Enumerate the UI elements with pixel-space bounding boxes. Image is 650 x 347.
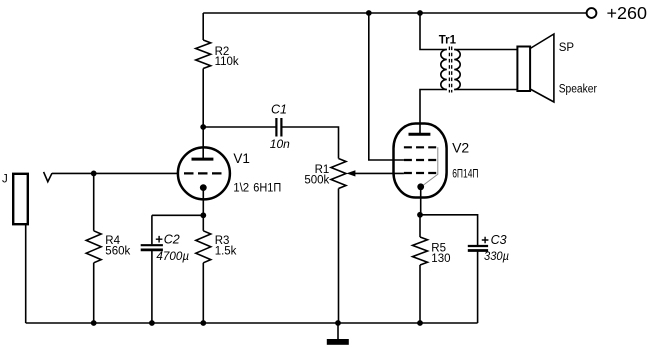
tube V2 internal g3-cathode tie [422,147,438,186]
svg-text:1.5k: 1.5k [215,245,237,257]
wire R2 bottom leg to node A [202,69,204,128]
wire cathode node to R3 [202,215,204,231]
wire V1 anode lead [202,127,204,159]
wire cathode node to C3 [420,215,478,246]
svg-text:SP: SP [559,42,575,54]
junction input / R4 [91,171,97,177]
wire V2 cathode lead [420,187,422,215]
svg-text:6Н1П: 6Н1П [253,183,281,195]
resistor R4 [86,231,101,263]
junction C2 / ground rail [149,320,155,326]
svg-text:500k: 500k [304,174,329,186]
svg-text:10n: 10n [270,137,290,151]
wire R5 top leg [419,215,421,237]
tube V2 cathode [417,183,424,190]
wire R4 top leg [93,173,95,230]
wire node A to C1 [203,126,276,128]
svg-text:Speaker: Speaker [559,84,597,96]
svg-text:+260: +260 [607,3,648,23]
node A (V1 anode) [200,124,206,130]
svg-text:V1: V1 [233,151,250,166]
svg-text:C3: C3 [491,233,507,247]
jack J [13,174,28,224]
tube V1 cathode [200,184,207,191]
ground symbol [327,339,349,345]
capacitor C2 plates [141,244,163,246]
speaker driver body [517,47,530,92]
svg-text:4700µ: 4700µ [156,249,189,263]
capacitor C3 plates [468,245,488,247]
tube V2 grid g1 (dashed) [404,172,436,174]
transformer Tr1 primary winding [441,50,447,90]
svg-text:110k: 110k [215,56,239,68]
wire Tr1 secondary bottom to speaker [454,89,517,91]
capacitor C1 plates [275,118,277,137]
junction top rail / screen feed [366,10,372,16]
svg-text:130: 130 [431,253,450,265]
svg-text:C2: C2 [164,233,180,247]
svg-text:J: J [2,173,8,185]
junction R4 / ground rail [91,320,97,326]
junction V1 cathode / C2 / R3 [200,212,206,218]
svg-text:560k: 560k [105,245,130,257]
junction top rail / Tr1 [417,10,423,16]
junction V2 cathode / R5 / C3 [417,212,423,218]
wire rail to Tr1 primary top [420,13,447,50]
wire C2 top connection [152,214,203,216]
wire C1 to R1 top [281,127,338,159]
svg-text:C1: C1 [271,102,287,116]
resistor R3 [196,231,211,263]
wire Tr1 secondary top to speaker [454,49,517,51]
wire R1 bottom to ground rail [338,189,340,324]
junction ground rail / earth [335,320,341,326]
input terminal V symbol [44,172,52,182]
transformer Tr1 secondary winding [454,50,460,90]
tube V1 envelope [178,147,230,199]
resistor R2 [196,40,211,69]
wire bottom ground rail [26,322,478,324]
svg-text:1\2: 1\2 [233,183,249,195]
svg-text:Tr1: Tr1 [439,34,457,46]
junction R5 / ground rail [417,320,423,326]
wire V1 cathode lead [202,188,204,216]
wire ground stub [337,323,339,339]
tube V1 grid (dashed) [184,172,222,174]
wire screen grid feed (rail to V2 g2) [369,13,404,160]
wire C2 lower leg [151,251,153,323]
svg-text:6П14П: 6П14П [452,168,478,180]
wire C3 lower leg [477,251,479,324]
terminal +260 [587,8,597,18]
tube V2 grid g3 suppressor (dashed) [404,146,436,148]
junction R3 / ground rail [200,320,206,326]
wire R5 bottom leg [419,265,421,323]
wire Tr1 primary bottom to V2 anode [420,90,447,135]
speaker cone [530,34,554,102]
tube V2 grid g2 screen (dashed) [404,159,436,161]
R1 wiper arrowhead [346,170,355,176]
wire C2 upper leg [151,215,153,244]
label C2 polarity + [156,236,163,243]
wire R4 bottom leg [93,263,95,323]
wire jack to ground rail [25,224,27,323]
tube V1 anode plate [192,158,214,161]
svg-text:V2: V2 [452,140,469,156]
tube V2 envelope [394,124,447,198]
wire input to V1 grid [52,172,178,174]
label C3 polarity + [482,237,489,244]
resistor R1 (volume pot) [331,159,346,189]
tube V2 anode plate [409,133,431,136]
resistor R5 [413,237,428,265]
wire R1 wiper to V2 control grid [352,172,404,174]
svg-text:330µ: 330µ [484,249,509,263]
transformer Tr1 core [448,47,450,93]
wire R3 bottom leg [202,263,204,323]
wire R2 top leg [202,13,204,40]
wire top +260 rail [203,12,586,14]
